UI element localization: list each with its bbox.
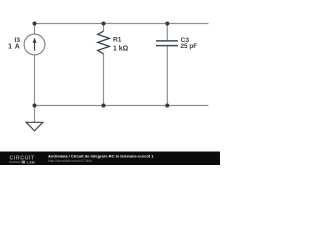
svg-text:1 kΩ: 1 kΩ bbox=[113, 46, 129, 53]
svg-text:http://circuitlab.com/c472k4x: http://circuitlab.com/c472k4x bbox=[48, 159, 92, 163]
current source I3 body bbox=[24, 34, 45, 55]
svg-text:1 A: 1 A bbox=[8, 44, 20, 51]
node bottom capacitor junction bbox=[165, 104, 169, 108]
node bottom resistor junction bbox=[102, 104, 106, 108]
node top-left junction bbox=[33, 22, 37, 26]
wire bottom rail bbox=[35, 105, 209, 107]
svg-text:R1: R1 bbox=[113, 37, 122, 44]
ground bbox=[26, 122, 43, 131]
wire top rail bbox=[35, 23, 209, 25]
resistor R1 bbox=[98, 31, 110, 54]
node bottom-left junction bbox=[33, 104, 37, 108]
capacitor C3 plate top bbox=[156, 40, 178, 42]
footer bar bbox=[0, 152, 220, 166]
current source I3 arrow bbox=[33, 38, 37, 51]
wire ground stub bbox=[34, 106, 36, 123]
wire left vertical lower bbox=[34, 55, 36, 106]
wire resistor top lead bbox=[103, 24, 105, 32]
svg-text:Andreiana / Circuit de integra: Andreiana / Circuit de integrare RC in t… bbox=[48, 154, 154, 159]
wire capacitor bottom lead bbox=[166, 46, 168, 106]
capacitor C3 plate bottom bbox=[156, 45, 178, 47]
node top capacitor junction bbox=[165, 22, 169, 26]
svg-text:LAB: LAB bbox=[27, 159, 35, 164]
svg-text:25 pF: 25 pF bbox=[181, 43, 198, 50]
node top resistor junction bbox=[102, 22, 106, 26]
wire left vertical upper bbox=[34, 24, 36, 35]
CircuitLab logo bbox=[9, 156, 35, 165]
wire capacitor top lead bbox=[166, 24, 168, 41]
wire resistor bottom lead bbox=[103, 54, 105, 106]
